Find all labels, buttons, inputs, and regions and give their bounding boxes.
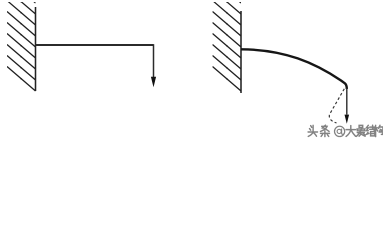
left fixed support hatching <box>7 0 36 91</box>
glyph 大 <box>346 126 355 137</box>
right wall line <box>240 11 242 93</box>
deflected beam curve <box>241 49 347 89</box>
glyph 构 <box>374 125 383 136</box>
right tip arrow shaft <box>346 88 348 115</box>
dashed deflection path <box>329 89 344 123</box>
left wall line <box>35 7 37 91</box>
glyph 象 <box>356 125 365 136</box>
left load arrow shaft <box>153 44 155 78</box>
watermark: 头条@大象结构 <box>308 125 383 136</box>
right tip arrowhead <box>345 115 350 124</box>
glyph 结 <box>366 125 375 136</box>
right fixed support hatching <box>213 0 242 91</box>
left load arrowhead <box>151 77 156 87</box>
glyph 头 <box>308 125 317 136</box>
glyph @ <box>335 126 345 136</box>
left beam (undeformed) <box>36 44 154 46</box>
glyph 条 <box>321 125 330 136</box>
